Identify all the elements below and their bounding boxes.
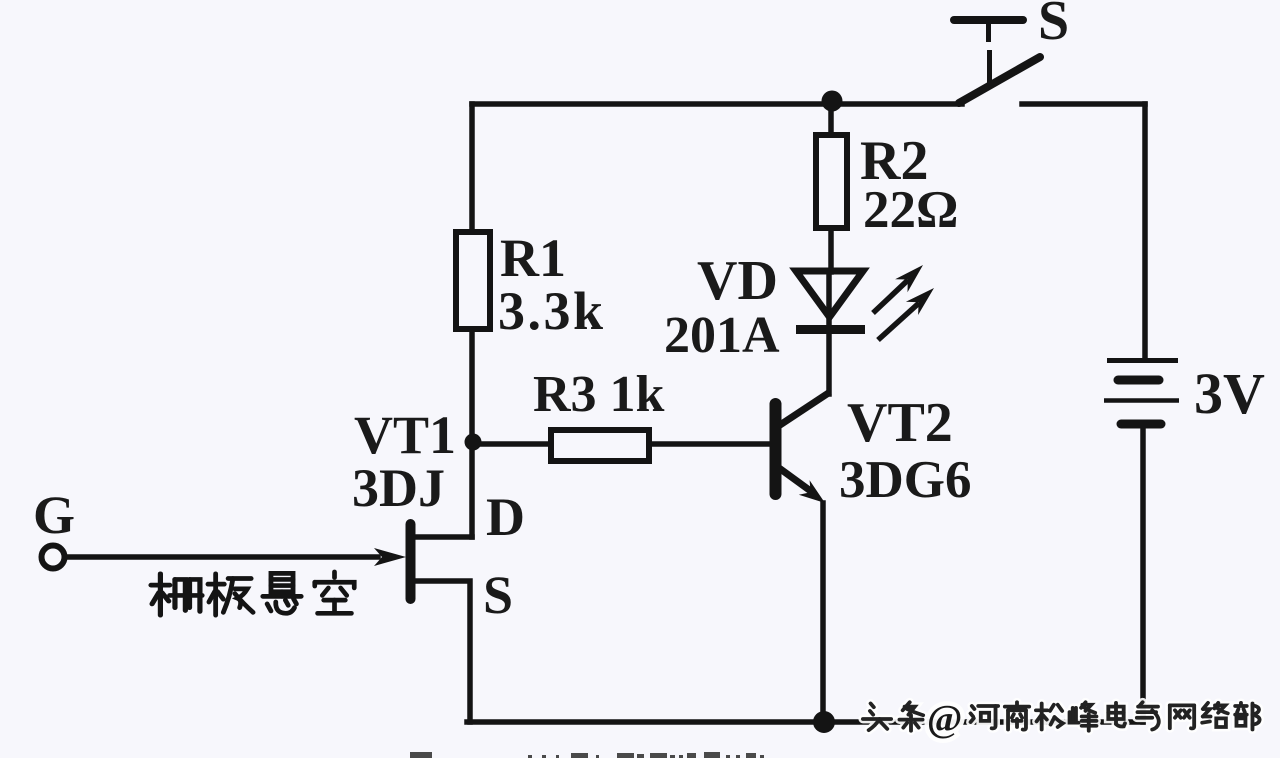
svg-text:3V: 3V bbox=[1194, 361, 1265, 426]
svg-text:VD: VD bbox=[697, 250, 778, 312]
svg-text:201A: 201A bbox=[664, 307, 780, 364]
svg-text:S: S bbox=[1038, 0, 1069, 52]
svg-text:G: G bbox=[33, 485, 75, 545]
svg-text:S: S bbox=[483, 565, 513, 625]
svg-text:R1: R1 bbox=[500, 228, 566, 288]
svg-text:22Ω: 22Ω bbox=[863, 181, 958, 239]
svg-text:R3 1k: R3 1k bbox=[533, 366, 665, 423]
svg-text:@: @ bbox=[927, 698, 962, 740]
svg-text:3DG6: 3DG6 bbox=[839, 451, 972, 509]
svg-text:3DJ: 3DJ bbox=[352, 458, 445, 518]
svg-text:VT1: VT1 bbox=[354, 405, 456, 465]
svg-text:VT2: VT2 bbox=[847, 392, 953, 454]
svg-text:D: D bbox=[486, 487, 525, 547]
svg-text:3.3k: 3.3k bbox=[498, 281, 606, 341]
